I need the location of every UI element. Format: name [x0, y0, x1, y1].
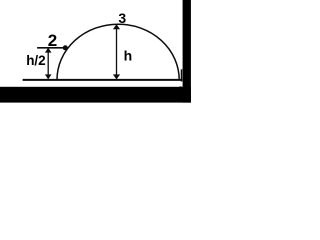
svg-text:h/2: h/2: [26, 53, 46, 68]
svg-text:3: 3: [118, 10, 126, 26]
h/2 arrowhead up: [45, 48, 52, 53]
h dimension arrow shaft: [116, 26, 118, 78]
h arrowhead up: [113, 24, 120, 29]
h arrowhead down: [113, 74, 120, 79]
right end vertical tick: [181, 69, 183, 81]
bottom black bar: [0, 87, 191, 103]
svg-text:h: h: [124, 48, 133, 64]
point 2 dot: [63, 45, 68, 50]
h/2 level tick line: [37, 47, 63, 49]
h/2 dimension arrow shaft: [47, 50, 49, 78]
corner speck artifact: [179, 86, 181, 90]
h/2 arrowhead down: [45, 74, 52, 79]
svg-text:2: 2: [48, 31, 57, 50]
dome arc: [57, 24, 179, 80]
ground baseline: [23, 79, 183, 81]
right black bar: [183, 0, 191, 103]
